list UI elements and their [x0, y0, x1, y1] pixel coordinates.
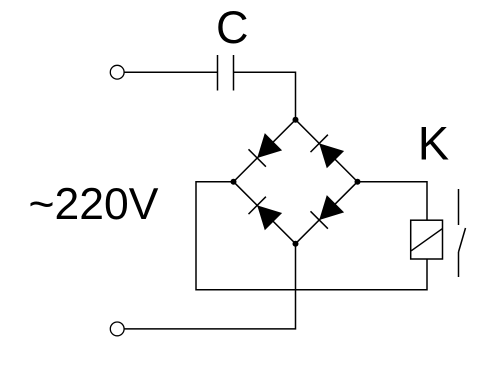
svg-text:C: C — [216, 2, 249, 53]
svg-text:K: K — [418, 117, 449, 170]
svg-text:~220V: ~220V — [29, 180, 159, 229]
